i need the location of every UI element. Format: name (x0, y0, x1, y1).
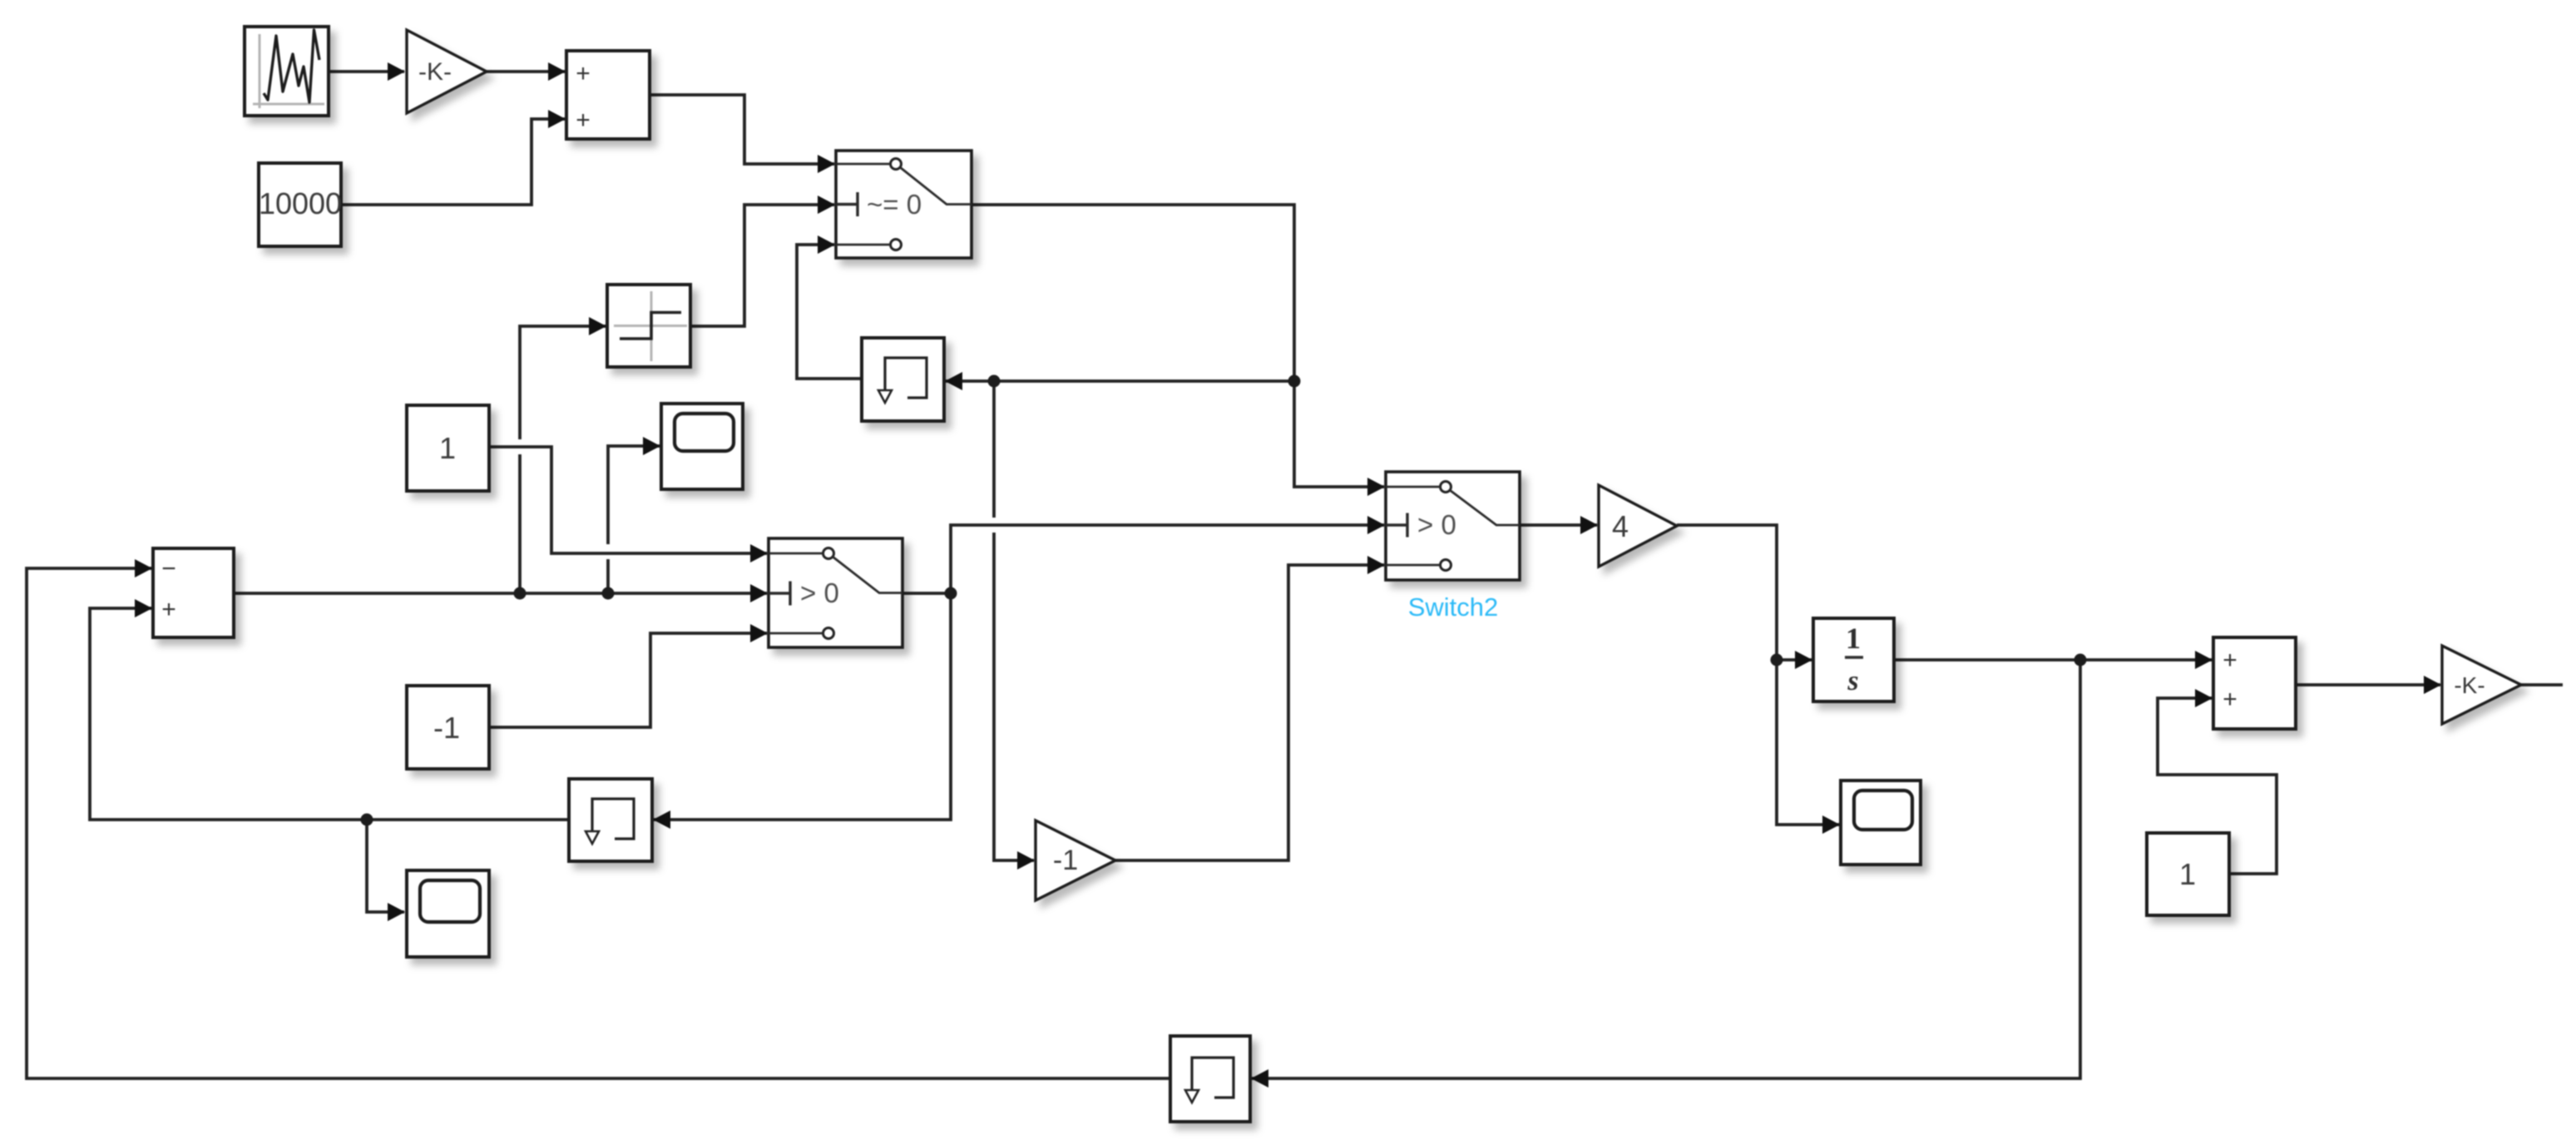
node: junction integrator-out to bottom feedback (2074, 654, 2087, 667)
node: junction switch1-out / memory1 column (1288, 375, 1301, 388)
gain -1 triangle (1036, 820, 1115, 900)
scope3 (1841, 781, 1921, 865)
switch3 >0 (left) (769, 538, 902, 647)
svg-text:> 0: > 0 (1417, 509, 1456, 540)
relay block (607, 285, 690, 367)
wire: branch to memory1 input (946, 379, 1294, 383)
svg-text:1: 1 (439, 431, 456, 465)
memory2 block (flipped) (569, 779, 652, 861)
wire: sum1 output to switch1 input1 (650, 95, 834, 164)
wire: source to gain1 (329, 70, 404, 73)
sum block left (- +) (153, 548, 234, 637)
node: junction sumL-out to scope1 (602, 587, 615, 600)
wire: memory3 output to sumL minus input (27, 568, 1170, 1078)
source block signal waveform (245, 27, 329, 116)
gain -K- block (right) (2442, 646, 2521, 724)
svg-text:+: + (161, 596, 176, 623)
svg-text:-K-: -K- (418, 58, 452, 86)
scope1 (661, 404, 743, 489)
svg-text:1: 1 (1846, 622, 1861, 655)
node: junction memory2-out to scope2 (361, 814, 373, 826)
svg-text:-1: -1 (433, 711, 460, 745)
wire: switch1 output to switch2 input1 (972, 205, 1384, 487)
node: junction memory1 line to gain -1 (988, 375, 1001, 388)
svg-text:~= 0: ~= 0 (867, 189, 922, 220)
wire: constant -1 to switch3 input3 (489, 633, 767, 727)
node: junction sumL-out to relay (514, 587, 527, 600)
svg-text:> 0: > 0 (800, 577, 839, 608)
wire: gain1 to sum1 input1 (487, 70, 565, 73)
svg-text:Switch2: Switch2 (1408, 592, 1499, 622)
wire: junction up to relay input (lower part) (518, 454, 522, 593)
svg-text:+: + (2222, 686, 2237, 713)
memory1 block (flipped) (862, 338, 944, 421)
wire: junction up to switch2 control input (951, 525, 1384, 593)
wire: sumL output to switch3 input2 (234, 592, 767, 595)
wire: switch3 output to junction (902, 592, 951, 595)
wire: junction up to scope1 input (upper part) (608, 446, 660, 544)
svg-text:−: − (161, 555, 176, 582)
constant -1 (407, 686, 489, 769)
svg-text:s: s (1847, 666, 1858, 696)
sum block right (+ +) (2213, 637, 2296, 729)
wire: junction up to relay input (upper part) (520, 326, 606, 439)
wire: constant 1 to switch3 input1 (489, 447, 767, 553)
wire: gain K2 output stub (2521, 683, 2563, 686)
svg-text:10000: 10000 (259, 186, 342, 221)
wire: junction down to memory2 input (654, 593, 951, 820)
switch2 >0 (1386, 472, 1520, 580)
wire: junction to integrator input (1777, 658, 1812, 662)
wire: branch down to gain -1 input (upper part) (992, 381, 996, 518)
wire: memory2 output to sumL plus input (90, 608, 567, 820)
svg-text:+: + (2222, 647, 2237, 674)
wire: gain4 output down to scope3 input (1677, 525, 1839, 825)
svg-text:1: 1 (2179, 857, 2196, 891)
integrator 1/s (1813, 618, 1894, 701)
wire: constant 10000 to sum1 input2 (341, 119, 565, 205)
wire: junction up to scope1 input (lower part) (606, 559, 610, 593)
svg-text:4: 4 (1612, 509, 1629, 543)
constant 10000 (259, 163, 342, 246)
wire: memory1 output to switch1 input3 (797, 245, 862, 379)
svg-text:-K-: -K- (2454, 672, 2485, 698)
switch1 ~=0 (836, 151, 972, 258)
wire: switch2 output to gain4 input (1520, 523, 1597, 527)
wire: sumR output to gain K2 input (2296, 683, 2440, 686)
svg-text:-1: -1 (1053, 845, 1078, 876)
svg-text:+: + (576, 60, 591, 87)
wire: branch down to gain -1 input (lower part) (994, 533, 1034, 860)
node: junction switch3-out (945, 587, 957, 600)
gain -K- block (left) (407, 30, 487, 113)
node: junction gain4-out to integrator (1771, 654, 1783, 667)
gain 4 triangle (1599, 485, 1677, 567)
wire: relay output to switch1 control input (690, 205, 834, 326)
sum block top (+ +) (566, 51, 650, 139)
svg-text:+: + (576, 107, 591, 134)
constant 1 (middle-left) (407, 405, 489, 491)
wire: junction down to scope2 input (367, 820, 404, 912)
memory3 block (flipped) (1170, 1036, 1250, 1122)
wire: integrator output to sumR input1 (1894, 658, 2212, 662)
wire: gain -1 output to switch2 input3 (1115, 565, 1384, 860)
wire: junction down to bottom feedback into memory3 input (1252, 660, 2080, 1078)
scope2 (407, 870, 489, 957)
wire: constant 1b to sumR input2 (2158, 698, 2277, 874)
constant 1 (bottom right) (2147, 833, 2229, 915)
